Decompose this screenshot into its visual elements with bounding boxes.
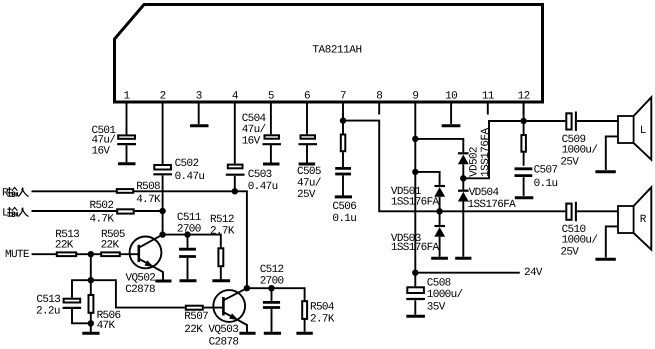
- resistor unlabeled (pin7): [341, 135, 346, 152]
- ground below VD503: [431, 257, 448, 260]
- ground below R504: [296, 332, 312, 335]
- capacitor C503: [226, 115, 278, 194]
- svg-text:C505: C505: [297, 166, 321, 178]
- svg-text:C513: C513: [36, 294, 60, 306]
- wire R-input to R508: [32, 190, 117, 192]
- svg-text:L: L: [640, 125, 646, 137]
- capacitor C502: [153, 115, 204, 212]
- svg-text:5: 5: [268, 91, 274, 103]
- svg-text:2700: 2700: [260, 275, 284, 287]
- node pin9 mid dot: [412, 169, 418, 175]
- node C511 top dot: [184, 231, 190, 237]
- svg-text:22K: 22K: [55, 240, 74, 252]
- ground below VQ502 emitter: [155, 280, 171, 283]
- capacitor C509: [560, 112, 618, 169]
- svg-text:4.7K: 4.7K: [136, 194, 161, 206]
- node pin9 upper dot: [412, 136, 418, 142]
- pin 5: [268, 91, 274, 115]
- diode VD504: [458, 178, 516, 256]
- svg-text:7: 7: [340, 91, 346, 103]
- capacitor C507: [515, 164, 558, 196]
- node VQ502 collector junction dot: [159, 231, 165, 237]
- ground below R512: [212, 279, 230, 282]
- svg-text:C2878: C2878: [125, 284, 155, 296]
- transistor VQ502: [125, 235, 163, 296]
- wire VD junction to pin 11 and pin 12: [463, 121, 565, 178]
- wire collector node to R512: [163, 235, 221, 248]
- node R506 bottom dot: [88, 320, 94, 326]
- transistor VQ503: [208, 288, 247, 348]
- svg-text:R507: R507: [184, 311, 208, 323]
- svg-text:4.7K: 4.7K: [90, 213, 115, 225]
- pin 3: [196, 91, 202, 115]
- svg-text:0.1u: 0.1u: [332, 213, 356, 225]
- svg-text:MUTE: MUTE: [5, 249, 30, 261]
- node VQ503 collector junction dot: [244, 285, 250, 291]
- svg-text:R502: R502: [90, 200, 114, 212]
- svg-text:2: 2: [160, 91, 166, 103]
- capacitor C506: [332, 168, 356, 225]
- wire collector line to R504: [247, 288, 305, 300]
- pin 10: [445, 91, 457, 115]
- ground below C511: [180, 279, 197, 282]
- svg-text:1000u/: 1000u/: [562, 235, 598, 247]
- node pin7 dot: [340, 117, 346, 123]
- pin 6: [304, 91, 310, 115]
- resistor R504: [302, 301, 335, 332]
- svg-text:22K: 22K: [101, 240, 120, 252]
- svg-text:VD504: VD504: [469, 187, 500, 199]
- svg-text:25V: 25V: [560, 157, 579, 169]
- wire 24V: [415, 272, 520, 274]
- capacitor C510: [560, 202, 618, 259]
- svg-text:47K: 47K: [97, 320, 116, 332]
- capacitor C504: [242, 113, 281, 163]
- node pin12 dot: [520, 118, 526, 124]
- capacitor C505: [297, 115, 321, 202]
- resistor R507: [186, 306, 203, 310]
- ground speaker L: [606, 136, 618, 170]
- svg-text:C507: C507: [534, 164, 558, 176]
- wire R502 to C502 junction: [135, 210, 163, 212]
- wire MUTE to R513: [32, 253, 56, 255]
- ground pin 10: [442, 124, 461, 127]
- svg-text:22K: 22K: [184, 324, 203, 336]
- svg-text:4: 4: [232, 91, 239, 103]
- ground below VQ503 emitter: [239, 332, 255, 335]
- ground below VD504 stub: [455, 257, 471, 260]
- wire down to collector node: [162, 211, 164, 235]
- wire pin3 stub: [198, 115, 200, 125]
- speaker L: [618, 97, 651, 159]
- ground below C506: [335, 195, 352, 198]
- wire pin 7 down: [342, 115, 344, 134]
- ground below C501: [118, 162, 136, 165]
- svg-text:47u/: 47u/: [242, 124, 266, 136]
- wire to VD502: [415, 139, 463, 152]
- pin 12: [518, 91, 530, 115]
- ground below R506: [82, 332, 99, 335]
- svg-text:2.2u: 2.2u: [36, 305, 60, 317]
- wire to C506: [342, 152, 344, 167]
- capacitor C511: [177, 212, 202, 280]
- wire to C507: [523, 152, 525, 166]
- pin 4: [232, 91, 239, 115]
- node L junction dot: [159, 208, 165, 214]
- svg-text:0.47u: 0.47u: [175, 171, 205, 183]
- svg-text:R512: R512: [210, 214, 234, 226]
- svg-text:1SS176FA: 1SS176FA: [391, 197, 440, 209]
- resistor unlabeled (pin12): [521, 135, 526, 152]
- node L-input label: [2, 207, 28, 219]
- svg-text:10: 10: [445, 91, 457, 103]
- capacitor C501: [92, 115, 137, 163]
- wire R508 to corner, node R-line: [134, 191, 247, 288]
- svg-text:8: 8: [376, 91, 382, 103]
- svg-text:C512: C512: [260, 264, 284, 276]
- node pin9 bottom dot (24V): [412, 270, 418, 276]
- svg-text:6: 6: [304, 91, 310, 103]
- svg-text:C506: C506: [332, 201, 356, 213]
- capacitor C513: [36, 294, 91, 323]
- svg-text:11: 11: [482, 91, 495, 103]
- speaker R: [618, 187, 651, 249]
- node VD502/VD504 dot: [460, 175, 466, 181]
- svg-text:1000u/: 1000u/: [427, 289, 463, 301]
- wire pin 12 down: [523, 104, 525, 135]
- svg-text:C504: C504: [242, 113, 267, 125]
- pin 7: [340, 91, 346, 115]
- capacitor C512: [260, 264, 284, 332]
- ground below C512: [264, 332, 281, 335]
- svg-text:16V: 16V: [92, 146, 111, 158]
- svg-text:2700: 2700: [177, 224, 201, 236]
- wire junction to C513: [72, 280, 91, 298]
- wire R505 to VQ502 base: [121, 253, 139, 255]
- svg-text:3: 3: [196, 91, 202, 103]
- svg-text:1000u/: 1000u/: [562, 145, 598, 157]
- svg-text:R: R: [640, 214, 647, 226]
- svg-text:C503: C503: [248, 169, 272, 181]
- wire pin 9 down: [414, 115, 416, 273]
- wire mute junction down: [90, 254, 92, 280]
- svg-text:1SS176FA: 1SS176FA: [391, 242, 440, 254]
- svg-text:C508: C508: [427, 278, 451, 290]
- svg-text:C511: C511: [177, 212, 202, 224]
- node VD501 output-line dot: [436, 208, 442, 214]
- wire bias junction to R507: [91, 280, 185, 307]
- svg-text:VQ502: VQ502: [126, 272, 156, 284]
- node bias junction dot: [88, 277, 94, 283]
- svg-text:9: 9: [412, 91, 418, 103]
- svg-text:25V: 25V: [297, 189, 316, 201]
- svg-text:R504: R504: [310, 301, 335, 313]
- ground below C504: [263, 163, 280, 166]
- svg-text:47u/: 47u/: [297, 178, 321, 190]
- ground below C507: [515, 196, 534, 199]
- svg-text:2.7K: 2.7K: [310, 313, 335, 325]
- svg-text:1: 1: [124, 91, 131, 103]
- resistor R505: [101, 252, 120, 256]
- svg-text:C2878: C2878: [209, 336, 239, 348]
- svg-text:24V: 24V: [524, 267, 543, 279]
- resistor R512: [210, 214, 235, 280]
- IC U501 TA8211AH body: [115, 5, 543, 103]
- svg-text:1SS176FA: 1SS176FA: [468, 199, 517, 211]
- diode VD501: [391, 186, 445, 211]
- pin 8: [376, 91, 382, 115]
- svg-text:VD502: VD502: [469, 147, 481, 177]
- pin 9: [412, 91, 418, 115]
- svg-text:VQ503: VQ503: [208, 324, 238, 336]
- node C512 top dot: [268, 285, 274, 291]
- svg-text:0.47u: 0.47u: [248, 181, 278, 193]
- wire pin 10 stub: [450, 115, 452, 125]
- wire pin7 node to R-output line: [343, 121, 565, 212]
- svg-text:C502: C502: [175, 158, 199, 170]
- wire R513 to R505: [77, 253, 100, 255]
- ground pin 3: [190, 124, 209, 127]
- pin 2: [160, 91, 166, 115]
- svg-text:25V: 25V: [560, 247, 579, 259]
- svg-text:2.7K: 2.7K: [210, 226, 235, 238]
- svg-text:1SS176FA: 1SS176FA: [480, 128, 492, 177]
- diode VD503: [391, 211, 445, 256]
- pin 11: [482, 91, 495, 115]
- diode VD502: [458, 128, 492, 179]
- resistor R502: [117, 209, 134, 213]
- svg-text:16V: 16V: [242, 136, 261, 148]
- wire to VD501: [415, 172, 439, 185]
- svg-text:TA8211AH: TA8211AH: [312, 45, 361, 57]
- wire R507 to VQ503 base: [204, 307, 224, 309]
- ground below C508: [406, 315, 425, 318]
- node mute junction dot: [88, 251, 94, 257]
- pin 1: [124, 91, 131, 115]
- ground speaker R: [606, 226, 618, 257]
- wire L-input to R502: [32, 210, 118, 212]
- svg-text:12: 12: [518, 91, 530, 103]
- resistor R506: [89, 295, 94, 313]
- node C503 / R-line dot: [232, 188, 238, 194]
- svg-text:0.1u: 0.1u: [534, 178, 558, 190]
- capacitor C508: [406, 273, 462, 315]
- resistor R513: [57, 252, 76, 256]
- svg-text:35V: 35V: [427, 302, 446, 314]
- node R-input label: [2, 187, 28, 199]
- resistor R508: [117, 189, 133, 193]
- svg-text:L: L: [2, 207, 8, 219]
- ground below C505: [299, 163, 316, 166]
